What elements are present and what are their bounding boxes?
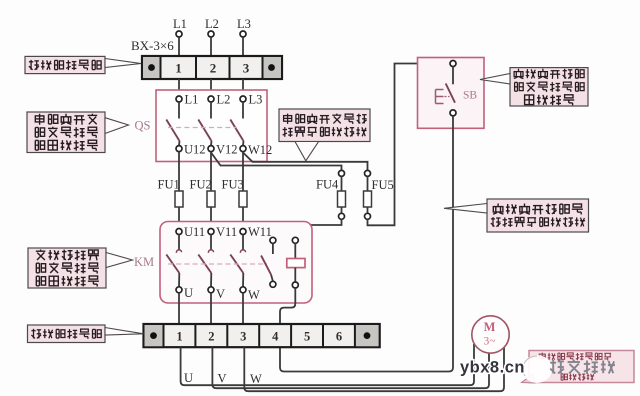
QS terminal label W12	[248, 143, 272, 157]
callout: KM symbol label	[28, 248, 133, 288]
terminal strip XT1 (top)	[142, 56, 282, 79]
wire FU2 to V11	[210, 207, 212, 229]
wire strip1 to QS L2	[210, 79, 212, 96]
KM auxiliary contact	[261, 237, 276, 287]
wire FU1 to U11	[178, 207, 180, 229]
wire L3 to terminal strip	[242, 37, 244, 56]
svg-text:U11: U11	[184, 225, 205, 239]
fuse FU5	[364, 170, 394, 219]
svg-text:V: V	[216, 287, 225, 301]
svg-text:L2: L2	[217, 93, 231, 107]
callout: terminal strip label (top)	[25, 56, 141, 73]
fuse FU3	[222, 178, 248, 208]
wire V12 to FU2	[210, 152, 212, 191]
svg-text:BX-3×6: BX-3×6	[131, 38, 174, 53]
watermark text jiecheng-peixun	[550, 360, 615, 374]
wire U to terminal 1	[178, 293, 180, 324]
svg-text:FU2: FU2	[190, 178, 212, 192]
node L3 label	[237, 17, 251, 31]
svg-text:FU4: FU4	[316, 178, 339, 192]
label QS	[135, 119, 151, 133]
svg-text:L3: L3	[237, 17, 251, 31]
svg-text:V12: V12	[216, 143, 238, 157]
wire U12 to FU1	[178, 152, 180, 191]
QS pole L2 with blade	[198, 93, 230, 152]
wire strip1 to QS L3	[242, 79, 244, 96]
watermark stamp	[522, 355, 552, 383]
label KM	[134, 255, 154, 269]
switch QS enclosure	[156, 90, 267, 162]
fuse FU2	[190, 178, 216, 208]
svg-text:5: 5	[304, 329, 310, 343]
svg-text:KM: KM	[134, 255, 154, 269]
svg-text:1: 1	[176, 329, 182, 343]
svg-text:L2: L2	[205, 17, 219, 31]
wire SB to terminal 4	[280, 116, 453, 372]
wire W12 to FU3	[242, 152, 244, 191]
svg-text:FU5: FU5	[372, 178, 394, 192]
fuse FU4	[316, 170, 346, 219]
wire V to terminal 2	[210, 293, 212, 324]
KM coil	[287, 237, 305, 288]
KM main contact V11-V	[198, 225, 237, 301]
svg-text:ybx8.cn: ybx8.cn	[460, 359, 525, 377]
phase label W	[250, 372, 262, 386]
svg-text:3: 3	[240, 329, 246, 343]
svg-text:FU1: FU1	[158, 178, 180, 192]
QS terminal label V12	[216, 143, 238, 157]
svg-text:U: U	[184, 371, 193, 385]
wire W to terminal 3	[242, 293, 244, 324]
node L1 label	[173, 17, 187, 31]
terminal strip XT2 (bottom)	[144, 324, 380, 347]
svg-text:3~: 3~	[484, 336, 496, 348]
callout: QS symbol label	[27, 112, 129, 153]
wire FU5 to SB	[368, 64, 451, 226]
svg-text:3: 3	[243, 61, 250, 76]
terminal L2	[208, 31, 214, 37]
QS pole L3 with blade	[230, 93, 262, 152]
fuse FU1	[158, 178, 184, 208]
terminal L1	[176, 31, 182, 37]
svg-text:L1: L1	[185, 93, 199, 107]
svg-text:1: 1	[175, 61, 182, 76]
svg-text:L3: L3	[249, 93, 263, 107]
svg-text:FU3: FU3	[222, 178, 244, 192]
wire terminal3 W to motor	[244, 347, 504, 392]
svg-text:V11: V11	[216, 225, 237, 239]
contactor KM enclosure	[160, 222, 312, 304]
watermark ybx8.cn	[460, 359, 525, 377]
svg-text:U: U	[184, 286, 193, 300]
callout: motor connection label (bottom right)	[522, 351, 635, 384]
motor M 3-phase	[472, 316, 509, 353]
svg-text:QS: QS	[135, 119, 151, 133]
KM main contact W11-W	[230, 225, 272, 302]
QS terminal label U12	[184, 143, 206, 157]
callout: terminal strip label (bottom)	[28, 325, 144, 343]
svg-text:2: 2	[210, 61, 217, 76]
svg-text:W11: W11	[248, 225, 272, 239]
QS pole L1 with blade	[166, 93, 198, 152]
wire L1 to terminal strip	[178, 37, 180, 56]
svg-text:W12: W12	[248, 143, 272, 157]
phase label U	[184, 371, 193, 385]
callout: SB symbol label	[480, 68, 588, 106]
wire terminal1 U to motor	[181, 344, 474, 385]
svg-text:U12: U12	[184, 143, 206, 157]
callout: QS-fuse connection label	[279, 109, 370, 161]
wire L2 to terminal strip	[210, 37, 212, 56]
wire V12 branch to FU4	[211, 153, 342, 171]
wire W12 branch to FU5	[243, 153, 368, 171]
svg-text:SB: SB	[463, 90, 477, 102]
wire terminal2 V to motor	[212, 347, 489, 388]
phase label V	[218, 372, 227, 386]
svg-text:W: W	[248, 288, 260, 302]
node L2 label	[205, 17, 219, 31]
svg-text:W: W	[250, 372, 262, 386]
svg-text:L1: L1	[173, 17, 187, 31]
svg-text:4: 4	[272, 329, 279, 343]
KM main contact U11-U	[166, 225, 205, 300]
svg-text:2: 2	[208, 329, 214, 343]
pushbutton SB	[418, 58, 485, 129]
QS linkage dashed line	[168, 127, 237, 129]
svg-text:V: V	[218, 372, 227, 386]
svg-text:6: 6	[336, 329, 342, 343]
wire strip1 to QS L1	[178, 79, 180, 96]
callout: SB-KM connection label	[444, 199, 589, 232]
KM linkage dashed line	[168, 263, 267, 265]
terminal L3	[240, 31, 246, 37]
wire KM coil to terminal 4	[280, 288, 295, 324]
wire FU4 to KM coil	[295, 219, 341, 237]
wire FU3 to W11	[242, 207, 244, 229]
svg-text:M: M	[484, 320, 496, 334]
label BX-3x6	[131, 38, 174, 53]
